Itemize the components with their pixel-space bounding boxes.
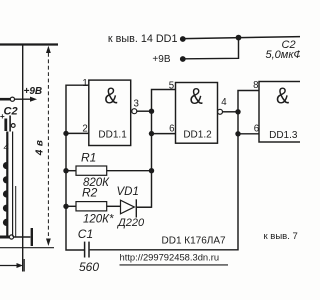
svg-text:VD1: VD1 xyxy=(117,186,139,198)
svg-text:к выв. 7: к выв. 7 xyxy=(264,231,298,242)
svg-text:DD1.1: DD1.1 xyxy=(98,130,127,141)
capacitor C2 (left, electrolytic, plates) xyxy=(4,119,7,132)
svg-text:3: 3 xyxy=(134,98,139,109)
dimension line 4V (dashed with arrows) xyxy=(47,53,49,239)
svg-text:1: 1 xyxy=(82,78,87,89)
wire top rail of cut-off left section xyxy=(0,43,58,45)
svg-text:+9В: +9В xyxy=(24,86,43,97)
wire vertical from top rail (left section) xyxy=(22,45,24,272)
svg-text:+: + xyxy=(0,112,5,121)
wire +9V line xyxy=(185,38,239,59)
wire pin 2 of DD1.1 xyxy=(66,132,89,134)
wire middle rail (DD1.1 out to DD1.2 inputs, R1, VD1) xyxy=(136,90,175,208)
node terminal dot (to pin 14 DD1) xyxy=(180,36,186,42)
wire output pin 4 bubble DD1.2 xyxy=(218,109,223,114)
diode VD1 xyxy=(121,200,135,214)
svg-text:8: 8 xyxy=(253,80,258,91)
dimension arrow horizontal bottom-left xyxy=(0,265,17,267)
op-amp gate DD1.3 xyxy=(259,82,302,143)
svg-text:к выв. 14 DD1: к выв. 14 DD1 xyxy=(108,33,178,45)
winding / component column (cut off at left edge) xyxy=(6,132,8,238)
op-amp gate DD1.2 xyxy=(176,83,218,144)
svg-text:120К*: 120К* xyxy=(83,213,114,225)
node junction DD1.2 out xyxy=(235,109,240,114)
svg-text:4: 4 xyxy=(221,97,227,108)
node T-bar terminator xyxy=(31,228,33,246)
wire lower input pin of DD1.3 xyxy=(238,133,259,135)
resistor R1 xyxy=(66,170,76,172)
svg-text:5: 5 xyxy=(169,81,174,92)
node junction pin 9 xyxy=(235,131,240,136)
svg-text:4в: 4в xyxy=(34,137,45,157)
wire underline of URL xyxy=(120,264,229,266)
node junction R1 right xyxy=(149,168,154,173)
node terminal dot +9V xyxy=(180,56,186,62)
resistor R2 xyxy=(66,205,76,207)
op-amp gate DD1.1 xyxy=(89,80,131,145)
node junction DD1.1 out xyxy=(149,109,154,114)
svg-text:5,0мкФ: 5,0мкФ xyxy=(266,49,301,61)
svg-text:&: & xyxy=(104,82,118,109)
svg-text:6: 6 xyxy=(169,124,174,135)
svg-text:С1: С1 xyxy=(78,227,93,241)
svg-text:6: 6 xyxy=(254,124,259,135)
svg-text:R2: R2 xyxy=(82,186,98,200)
wire right rail (DD1.2 out to DD1.3 inputs, C1) xyxy=(90,91,259,250)
wire output pin 3 bubble DD1.1 xyxy=(132,109,137,114)
svg-text:DD1 К176ЛА7: DD1 К176ЛА7 xyxy=(162,235,227,246)
svg-text:Д220: Д220 xyxy=(116,217,145,229)
node junction R2 left xyxy=(63,204,68,209)
wire bottom rail (left section) xyxy=(0,247,54,249)
svg-text:2: 2 xyxy=(82,123,87,134)
node junction R1 left xyxy=(63,168,68,173)
wire left rail of main circuit xyxy=(66,85,89,250)
node junction pin 6 xyxy=(149,131,154,136)
svg-text:&: & xyxy=(276,82,290,109)
svg-text:560: 560 xyxy=(79,260,99,274)
wire top supply line xyxy=(185,37,300,39)
svg-text:http://299792458.3dn.ru: http://299792458.3dn.ru xyxy=(120,252,220,263)
svg-text:DD1.3: DD1.3 xyxy=(269,130,298,141)
node +9V terminal (open circle) top-left xyxy=(0,98,10,101)
wire bottom thick (left section) with terminal circle xyxy=(0,236,9,239)
wire pin 6 of DD1.2 xyxy=(152,133,176,135)
wire +9V arrow xyxy=(15,98,31,100)
node junction pin2 xyxy=(63,131,68,136)
svg-text:R1: R1 xyxy=(81,151,96,165)
svg-text:+9В: +9В xyxy=(152,54,170,65)
svg-text:&: & xyxy=(190,82,204,109)
capacitor C1 xyxy=(84,242,86,258)
node junction top xyxy=(236,35,242,41)
svg-text:DD1.2: DD1.2 xyxy=(183,129,212,140)
svg-text:С2: С2 xyxy=(4,106,18,118)
svg-text:4: 4 xyxy=(4,142,9,153)
